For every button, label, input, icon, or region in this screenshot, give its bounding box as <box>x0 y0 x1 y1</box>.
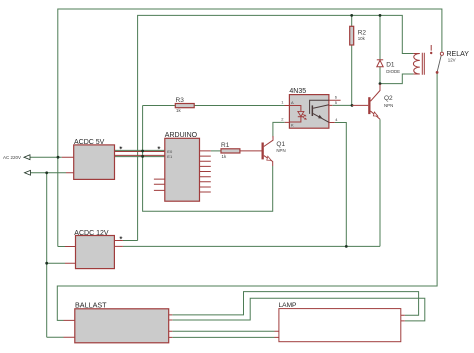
star mark 5V plus <box>119 146 122 149</box>
svg-text:DIODE: DIODE <box>386 69 400 74</box>
ARDUINO module <box>154 132 211 201</box>
svg-text:1k: 1k <box>176 108 181 113</box>
opto internal LED <box>289 106 301 123</box>
node dot AC line1 at x58 <box>57 156 60 159</box>
wire 5V out pair row B <box>115 154 166 156</box>
svg-text:D1: D1 <box>386 62 395 69</box>
optocoupler U1 4N35 <box>281 88 340 128</box>
wire ballast out1 riser <box>172 292 418 316</box>
wire ballast lower-left feed <box>47 336 64 338</box>
relay K1 coil <box>413 53 424 75</box>
resistor R3 <box>175 97 194 113</box>
node dot 5V row B <box>141 155 144 158</box>
wire ballast out2 riser <box>172 298 424 321</box>
wire opto pin4 branch <box>335 123 347 247</box>
wire arduino to R1 <box>211 150 221 152</box>
svg-text:A: A <box>291 100 294 105</box>
wire +12V rail inner loop <box>138 15 414 240</box>
wire AC220V upper input <box>30 156 62 158</box>
svg-text:BALLAST: BALLAST <box>75 301 107 310</box>
AC 220V source arrows <box>3 155 31 175</box>
node dot ACDC12V lower input <box>45 262 48 265</box>
node dot AC line2 at x46.7 <box>45 171 48 174</box>
wire opto pin5 to R2 node <box>332 104 352 106</box>
wire R2 branch vertical <box>351 15 353 105</box>
svg-text:10k: 10k <box>358 36 366 41</box>
wire ballast out3 to lamp <box>172 330 274 332</box>
opto internal phototransistor <box>310 100 329 114</box>
svg-text:NPN: NPN <box>384 103 393 108</box>
svg-text:E1: E1 <box>167 154 173 159</box>
wire gnd rail (ACDC12V out2) <box>123 245 380 247</box>
wire Q2 emitter to gnd rail <box>379 119 381 246</box>
svg-text:NPN: NPN <box>276 148 285 153</box>
node dot D1 bottom / Q2 collector <box>379 82 382 85</box>
wire R3 corner vertical to 5V rail and Q1 emitter <box>143 106 273 212</box>
svg-text:12V: 12V <box>448 58 456 63</box>
lamp module <box>275 302 405 342</box>
resistor R1 <box>221 142 262 159</box>
wire relay coil bottom return <box>380 74 413 84</box>
svg-text:ACDC 5V: ACDC 5V <box>74 139 105 146</box>
wire ballast out4 to lamp <box>172 336 274 338</box>
relay switch pivot dot <box>436 71 439 74</box>
svg-text:K: K <box>291 123 294 128</box>
svg-text:R3: R3 <box>176 97 185 104</box>
svg-text:AC 220V: AC 220V <box>3 155 21 160</box>
wire AC220V lower input <box>31 172 67 174</box>
wire relay switched output loop <box>57 72 437 320</box>
transistor Q2 <box>352 84 393 119</box>
node dot 5V row A <box>141 150 144 153</box>
svg-text:R1: R1 <box>221 142 230 149</box>
resistor R2 <box>350 26 367 45</box>
wire R3 net to opto pin1 <box>143 105 285 107</box>
relay actuator mark <box>430 45 432 51</box>
svg-text:ACDC 12V: ACDC 12V <box>74 230 109 237</box>
ACDC 5V module <box>62 139 115 180</box>
svg-text:Q2: Q2 <box>384 95 393 102</box>
svg-text:1k: 1k <box>222 154 227 159</box>
relay switch blade <box>437 55 441 71</box>
ballast module <box>64 301 173 343</box>
wire 5V out pair row A <box>115 149 166 151</box>
node dot D1 top <box>379 14 382 17</box>
transistor Q1 <box>262 136 286 166</box>
wire outer top loop (AC line 1 to relay contact) <box>58 9 442 247</box>
node dot gnd rail pin4 junction <box>345 245 348 248</box>
ACDC 12V module <box>65 230 123 269</box>
node dot pin5 R2 junction <box>351 104 354 107</box>
svg-text:4N35: 4N35 <box>289 88 306 95</box>
svg-text:ARDUINO: ARDUINO <box>165 132 198 139</box>
node dot R2 top <box>350 14 353 17</box>
wire ACDC12V upper-left pin feed <box>58 246 65 248</box>
wire AC line2 left vertical <box>46 173 48 337</box>
wire opto pin2 to Q1 collector <box>273 122 285 137</box>
wire D1 branch vertical <box>379 15 381 83</box>
wire ACDC12V lower-left pin feed <box>47 262 65 264</box>
diode D1 <box>377 60 400 74</box>
relay switch contact <box>440 52 443 55</box>
star mark 12V plus <box>119 236 122 239</box>
wire ACDC12V plus output <box>123 240 138 242</box>
svg-text:LAMP: LAMP <box>279 302 298 309</box>
star mark arduino supply <box>157 146 160 149</box>
